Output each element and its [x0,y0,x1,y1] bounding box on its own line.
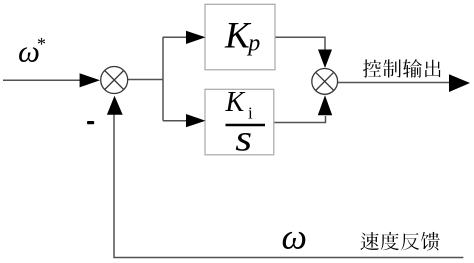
svg-text:s: s [235,117,252,158]
svg-text:p: p [246,31,260,57]
svg-text:ω: ω [282,217,307,257]
svg-text:K: K [225,87,246,118]
svg-text:*: * [37,34,46,54]
